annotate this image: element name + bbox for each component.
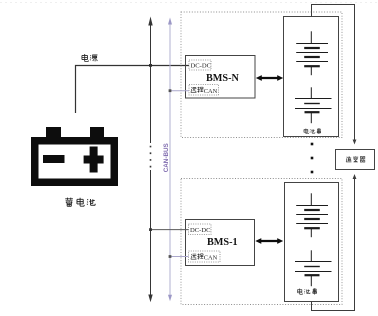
svg-text:CAN: CAN (204, 255, 218, 262)
svg-text:DC-DC: DC-DC (190, 227, 211, 234)
svg-text:CAN: CAN (204, 88, 218, 95)
svg-text:BMS-1: BMS-1 (207, 237, 238, 248)
svg-text:CAN-BUS: CAN-BUS (163, 143, 170, 172)
svg-text:DC-DC: DC-DC (191, 63, 212, 70)
svg-text:BMS-N: BMS-N (206, 73, 239, 84)
